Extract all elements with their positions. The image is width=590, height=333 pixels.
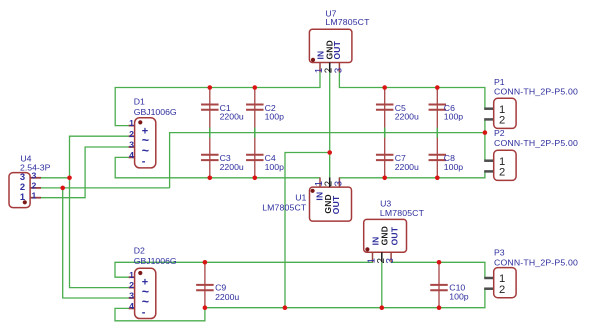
svg-text:OUT: OUT [389, 226, 399, 245]
connector U4 body [9, 173, 30, 208]
svg-text:4: 4 [129, 301, 134, 311]
node junction C9 bottom [203, 305, 208, 310]
wire U3 pin2 down to lower rail [381, 262, 383, 308]
svg-text:1: 1 [129, 270, 134, 280]
bridge rectifier D1 body [135, 118, 156, 168]
svg-text:2200u: 2200u [395, 162, 419, 172]
wire D2 pin4 jog under D2 to C9 bottom [115, 308, 205, 321]
node junction C3 bottom [208, 176, 213, 181]
svg-text:2: 2 [32, 181, 37, 191]
P1 pin 1 stub [484, 107, 494, 110]
D1 pin 3 stub [129, 146, 135, 148]
svg-text:3: 3 [385, 258, 396, 264]
op-amp-style regulator U3 body [364, 219, 407, 252]
svg-text:3: 3 [129, 291, 134, 301]
wire GND tee from U7/U1 GND line west and down to lower rail [285, 153, 330, 308]
wire U7 pin2 GND vertical down to U1 pin2 [329, 72, 331, 177]
capacitor C7 plates [376, 155, 394, 160]
D2 pin 1 stub [129, 276, 135, 278]
svg-text:100p: 100p [265, 112, 284, 122]
svg-text:2200u: 2200u [220, 112, 244, 122]
D2 pin1 marker dot [138, 271, 142, 275]
capacitor C1 lead and plates [209, 88, 211, 178]
wire bottom bus east segment from U1 pin3 to P2 pin2 [339, 171, 485, 178]
capacitor C9 lead [204, 262, 206, 307]
U7 pin1 marker dot [311, 58, 315, 62]
svg-text:4: 4 [129, 150, 134, 160]
svg-text:CONN-TH_2P-P5.00: CONN-TH_2P-P5.00 [494, 138, 578, 148]
node junction U4 pin2 tee [60, 186, 65, 191]
capacitor C10 plates [430, 285, 448, 290]
U1 pin 2 stub [329, 177, 331, 187]
svg-text:2: 2 [499, 115, 505, 127]
node junction C7 bottom [382, 176, 387, 181]
D2 pin 2 stub [129, 287, 135, 289]
svg-text:OUT: OUT [331, 195, 341, 214]
wire top bus east segment from U7 pin3 to P1 pin1 [339, 72, 485, 108]
wire U4 pin3 stub wire [41, 177, 70, 179]
D1 pin1 marker dot [138, 120, 142, 124]
svg-text:3: 3 [129, 140, 134, 150]
svg-text:100p: 100p [444, 162, 463, 172]
capacitor C2 lead and plates [254, 88, 256, 178]
svg-text:GBJ1006G: GBJ1006G [134, 256, 177, 266]
svg-text:100p: 100p [265, 162, 284, 172]
node junction C1 top [208, 85, 213, 90]
svg-text:CONN-TH_2P-P5.00: CONN-TH_2P-P5.00 [494, 257, 578, 267]
wire top bus west segment from D1 pin1 to U7 pin1 [115, 72, 320, 125]
capacitor C4 plates [246, 155, 263, 160]
capacitor C8 plates [429, 155, 447, 160]
svg-text:LM7805CT: LM7805CT [380, 208, 425, 218]
wire lower rail from C9 to P3 pin2 [205, 288, 485, 308]
P3 pin 2 stub [484, 287, 494, 290]
U7 pin 3 stub [338, 63, 340, 73]
svg-text:GND: GND [380, 226, 390, 246]
node junction C4 bottom [253, 176, 258, 181]
D1 pin 2 stub [129, 135, 135, 137]
svg-text:2: 2 [129, 280, 134, 290]
svg-text:2: 2 [499, 284, 505, 296]
svg-text:P2: P2 [494, 128, 505, 138]
svg-text:-: - [142, 306, 146, 318]
wire stub joining C5/C7 pins at middle bus [384, 128, 386, 138]
svg-text:-: - [142, 156, 146, 168]
node junction C2 top [253, 85, 258, 90]
U7 pin 2 stub [329, 63, 331, 73]
U3 pin1 marker dot [365, 247, 369, 251]
wire U4 pin2 junction down to D2 pin3 [63, 188, 129, 298]
node junction C8 bottom [435, 176, 440, 181]
capacitor C9 plates [196, 285, 214, 290]
node junction mid bus to P1/P2 [483, 130, 488, 135]
capacitor C5 lead and plates [384, 88, 386, 178]
svg-text:1: 1 [129, 118, 134, 128]
svg-text:2: 2 [129, 129, 134, 139]
svg-text:LM7805CT: LM7805CT [262, 202, 307, 212]
D1 pin 4 stub [129, 156, 135, 158]
connector P3 body [494, 268, 516, 298]
svg-text:D1: D1 [134, 97, 145, 107]
svg-text:3: 3 [333, 180, 344, 186]
node junction U4 pin3 tee [67, 176, 72, 181]
U4 pin 3 stub [30, 177, 41, 179]
U4 pin1 marker dot [23, 200, 27, 204]
U4 pin 1 stub [30, 197, 41, 199]
svg-text:2: 2 [499, 167, 505, 179]
U4 pin 2 stub [30, 187, 41, 189]
U1 pin1 marker dot [311, 189, 315, 193]
P2 pin 2 stub [484, 170, 494, 173]
svg-text:U1: U1 [295, 193, 306, 203]
node junction U3 pin2 at lower rail [380, 305, 385, 310]
svg-text:100p: 100p [444, 112, 463, 122]
svg-text:2.54-3P: 2.54-3P [20, 162, 51, 172]
capacitor C10 lead [438, 262, 440, 307]
node junction C9 top [203, 260, 208, 265]
svg-text:3: 3 [333, 67, 344, 73]
op-amp-style regulator U1 body [310, 187, 352, 221]
svg-text:2200u: 2200u [395, 112, 419, 122]
wire U4 pin1 up to D1 pin3 [41, 147, 129, 198]
svg-text:OUT: OUT [332, 40, 342, 59]
U3 pin 1 stub [372, 252, 374, 262]
node junction C6 top [435, 85, 440, 90]
wire stub joining C6/C8 pins at middle bus [436, 128, 438, 138]
node junction C10 bottom [437, 305, 442, 310]
svg-text:P3: P3 [494, 248, 505, 258]
svg-text:1: 1 [20, 191, 25, 202]
P2 pin 1 stub [484, 159, 494, 162]
D1 pin 1 stub [129, 125, 135, 127]
wire P1 pin2 to P2 pin1 vertical [484, 119, 486, 161]
wire D1 pin2 to D2 pin2 via left vertical [70, 136, 129, 287]
wire lower upper-rail west segment from D2 pin1 to U3 pin1 [115, 262, 373, 277]
wire middle bus from U4 pin2 riser to P1/P2 junction [170, 133, 485, 188]
svg-text:100p: 100p [449, 292, 468, 302]
U7 pin 1 stub [319, 63, 321, 73]
wire stub joining C1/C3 pins at middle bus [209, 128, 211, 138]
D2 pin 4 stub [129, 307, 135, 309]
node junction GND at lower rail [283, 305, 288, 310]
node junction C5 top [382, 85, 387, 90]
node junction C10 top [437, 260, 442, 265]
P1 pin 2 stub [484, 118, 494, 121]
wire stub joining C2/C4 pins at middle bus [254, 128, 256, 138]
svg-text:LM7805CT: LM7805CT [325, 17, 370, 27]
capacitor C6 lead and plates [436, 88, 438, 178]
connector P1 body [494, 98, 516, 128]
svg-text:CONN-TH_2P-P5.00: CONN-TH_2P-P5.00 [494, 86, 578, 96]
svg-text:1: 1 [32, 190, 37, 200]
U1 pin 1 stub [319, 177, 321, 187]
svg-text:2200u: 2200u [215, 292, 239, 302]
wire lower upper-rail east segment from U3 pin3 to P3 pin1 [391, 262, 485, 278]
P3 pin 1 stub [484, 277, 494, 280]
svg-text:GBJ1006G: GBJ1006G [134, 107, 177, 117]
svg-text:D2: D2 [134, 246, 145, 256]
wire bottom bus west segment from D1 pin4 to U1 pin1 [115, 157, 320, 177]
wire U4 pin2 row [41, 187, 170, 189]
node junction GND tee [327, 150, 332, 155]
capacitor C3 plates [201, 155, 219, 160]
op-amp-style regulator U7 body [309, 29, 352, 62]
connector P2 body [494, 150, 516, 180]
U3 pin 2 stub [381, 252, 383, 262]
svg-text:2200u: 2200u [220, 162, 244, 172]
U3 pin 3 stub [390, 252, 392, 262]
D2 pin 3 stub [129, 297, 135, 299]
U1 pin 3 stub [338, 177, 340, 187]
bridge rectifier D2 body [135, 268, 156, 318]
